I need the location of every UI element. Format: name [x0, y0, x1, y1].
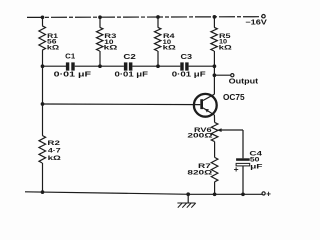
wire: R1 node to C1: [43, 65, 67, 67]
wire: emitter to RV6: [213, 115, 215, 122]
svg-text:OC75: OC75: [223, 93, 245, 102]
svg-text:820Ω: 820Ω: [187, 169, 212, 176]
node: top rail / R5 junction: [213, 15, 217, 19]
svg-text:+: +: [234, 164, 239, 174]
wire: R7 to bottom rail: [214, 182, 216, 195]
node: C4 / bottom rail junction: [241, 192, 245, 196]
svg-text:kΩ: kΩ: [47, 44, 59, 51]
node: base tap junction: [41, 102, 45, 106]
label C4 50 uF: [249, 151, 262, 171]
wire: C1 to C2 through R3 node: [75, 65, 124, 67]
node: top rail / R4 junction: [156, 15, 160, 19]
node: R7 / bottom rail junction: [213, 192, 217, 196]
wire: R5 node to output node: [213, 66, 215, 75]
label R5 10 kOhm: [219, 33, 232, 51]
svg-text:C2: C2: [123, 54, 136, 61]
svg-text:kΩ: kΩ: [48, 155, 61, 162]
ground symbol: [177, 192, 195, 207]
svg-text:4·7: 4·7: [48, 147, 61, 154]
resistor R1: [39, 17, 46, 66]
wire: output node to collector: [213, 75, 215, 94]
label R7 820 Ohm: [187, 163, 212, 177]
wire: C3 to R5 node: [189, 65, 215, 67]
svg-text:200Ω: 200Ω: [187, 133, 212, 140]
svg-text:50: 50: [250, 156, 260, 163]
wire: base wire from divider tap to base: [43, 103, 201, 106]
terminal: -16V supply: [262, 15, 265, 18]
svg-text:C3: C3: [181, 54, 193, 61]
svg-text:Output: Output: [229, 77, 259, 86]
svg-text:0·01 μF: 0·01 μF: [115, 72, 149, 79]
wire: RV6 to R7: [214, 142, 216, 158]
node: top rail / R1 junction: [41, 15, 45, 19]
wire: top supply rail (dash-dot): [27, 16, 262, 19]
svg-text:+: +: [266, 190, 271, 199]
svg-text:R2: R2: [47, 140, 60, 147]
terminal: output: [231, 74, 234, 77]
node: R5 / C3 / collector junction: [213, 64, 217, 68]
svg-text:μF: μF: [250, 163, 262, 170]
resistor R4: [155, 17, 161, 66]
svg-text:0·01 μF: 0·01 μF: [172, 71, 207, 78]
svg-text:kΩ: kΩ: [219, 45, 232, 52]
wire: C4 to bottom rail: [242, 166, 244, 194]
wire: C2 to C3 through R4 node: [132, 65, 180, 67]
resistor R7: [211, 157, 218, 181]
node: output tap junction: [213, 73, 217, 77]
svg-text:kΩ: kΩ: [104, 45, 118, 52]
wire: bottom ground rail: [25, 192, 262, 195]
wiper arrow of RV6: [217, 128, 243, 132]
resistor R3: [97, 17, 103, 66]
label R1 56 kOhm: [47, 33, 59, 51]
potentiometer RV6: [211, 122, 218, 141]
label RV6 200 Ohm: [187, 127, 212, 140]
label R4 10 kOhm: [163, 33, 176, 51]
svg-text:0·01 μF: 0·01 μF: [54, 71, 92, 78]
capacitor C3: [180, 62, 188, 70]
node: top rail / R3 junction: [98, 15, 102, 19]
label R2 4.7 kOhm: [47, 140, 61, 162]
node: R1 / C1 wire junction: [41, 64, 45, 68]
node: R3 / coupling wire junction: [98, 64, 102, 68]
resistor R2: [39, 104, 46, 192]
capacitor C4 electrolytic: [236, 158, 250, 166]
transistor V1 OC75 (PNP): [194, 94, 217, 117]
label R3 10 kOhm: [104, 33, 118, 51]
node: R2 / bottom rail junction: [41, 190, 45, 194]
wire: wiper down to C4: [242, 130, 244, 158]
capacitor C2: [124, 62, 132, 70]
capacitor C1: [66, 62, 75, 70]
svg-text:−16V: −16V: [245, 20, 267, 27]
resistor R5: [211, 17, 217, 66]
terminal: bottom-right + terminal: [262, 192, 265, 195]
svg-text:kΩ: kΩ: [163, 45, 176, 52]
svg-text:C1: C1: [65, 53, 75, 60]
node: R4 / coupling wire junction: [156, 64, 160, 68]
wire: column down to base tap: [42, 66, 44, 104]
wire: output stub: [214, 74, 230, 76]
